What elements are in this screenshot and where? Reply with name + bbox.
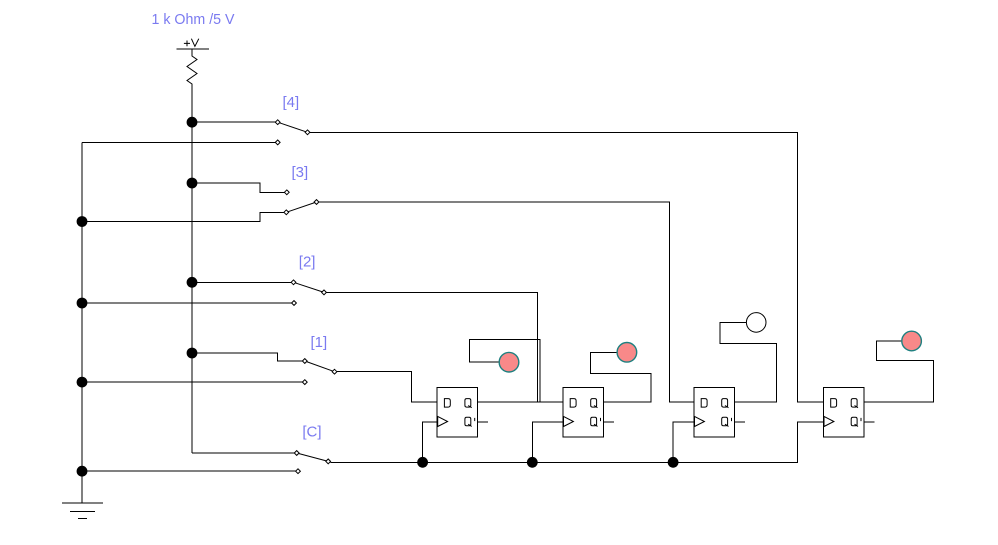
switch S1 [1] [302, 359, 337, 385]
wire [C] bottom contact feed [82, 470, 296, 472]
node junction on +V rail (switch 3) [187, 178, 198, 189]
wire [1] top contact feed jog [192, 353, 303, 361]
svg-text:[C]: [C] [302, 424, 321, 441]
node junction on ground bus (switch 1) [77, 377, 88, 388]
wire clock branch FF3 [673, 422, 694, 463]
D flip-flop U1 [437, 387, 488, 437]
wire FF2 Q to probe loop [590, 352, 651, 402]
node junction on +V rail (switch 2) [187, 277, 198, 288]
wire clock branch FF2 [532, 422, 563, 463]
switch SC [C] [294, 451, 330, 474]
D flip-flop U2 [563, 387, 614, 437]
wire +V rail vertical [191, 85, 193, 453]
wire left ground bus vertical [81, 142, 83, 502]
wire clock branch FF1 [423, 422, 438, 463]
svg-text:1 k Ohm /5 V: 1 k Ohm /5 V [152, 11, 235, 28]
ground [62, 503, 103, 518]
switch S2 [2] [291, 280, 326, 306]
D flip-flop U3 [694, 387, 745, 437]
wire [1] bottom contact feed [82, 381, 303, 383]
wire FF3 Q to probe loop [720, 322, 776, 402]
probe X2 (lit, red) [617, 343, 637, 363]
wire FF1 Q to probe loop [470, 340, 541, 402]
node junction on +V rail (switch 4) [187, 117, 198, 128]
svg-text:[2]: [2] [299, 254, 316, 271]
wire switch [4] pole to FF4 D [310, 132, 824, 402]
svg-text:[4]: [4] [283, 94, 300, 111]
wire switch [2] pole to FF2 D [326, 292, 563, 402]
wire +V rail corner to [C] top contact [192, 452, 295, 454]
node junction clock line FF2 [527, 457, 538, 468]
power +V V1 [177, 39, 210, 53]
probe X3 (off, white) [746, 313, 766, 333]
wire switch [1] pole to FF1 D [337, 372, 437, 402]
switch S4 [4] [275, 120, 310, 145]
wire clock line from switch [C] [331, 422, 824, 463]
node junction on +V rail (switch 1) [187, 348, 198, 359]
wire [3] bottom contact feed jog [82, 212, 284, 221]
wire [3] top contact feed jog [192, 183, 285, 192]
wire [4] top contact feed [192, 121, 275, 123]
wire [2] top contact feed [192, 281, 291, 283]
node junction on ground bus (switch 3) [77, 216, 88, 227]
resistor R1 1 k Ohm [187, 53, 197, 86]
probe X1 (lit, red) [499, 352, 519, 372]
svg-text:[3]: [3] [292, 164, 309, 181]
switch S3 [3] [284, 190, 319, 215]
svg-text:[1]: [1] [311, 334, 328, 351]
wire [2] bottom contact feed [82, 302, 292, 304]
wire FF4 Q to probe loop [864, 341, 933, 402]
probe X4 (lit, red) [902, 331, 922, 351]
node junction clock line FF3 [668, 457, 679, 468]
wire [4] bottom contact feed [82, 141, 275, 143]
node junction on ground bus (switch 2) [77, 298, 88, 309]
wire switch [3] pole to FF3 D [319, 202, 694, 402]
node junction clock line FF1 [417, 457, 428, 468]
node junction on ground bus (switch C) [77, 466, 88, 477]
D flip-flop U4 [824, 387, 875, 437]
